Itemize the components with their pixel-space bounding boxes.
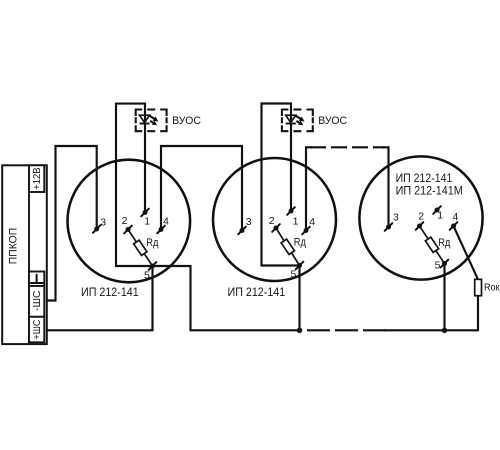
svg-text:1: 1 xyxy=(144,216,150,228)
wire detector 3 pin 2 to pin 5 through Rд R3 xyxy=(420,226,445,264)
detector circle D1 xyxy=(68,160,191,283)
terminal +ШС xyxy=(29,317,44,343)
detector 1 pin 4 xyxy=(157,226,165,234)
detector 3 pin 1 xyxy=(433,206,441,214)
resistor Rд R3 xyxy=(425,237,451,252)
svg-text:2: 2 xyxy=(418,210,424,222)
svg-text:3: 3 xyxy=(393,212,399,224)
ВУОС U1 LED diode xyxy=(140,115,150,123)
ВУОС U2 LED diode xyxy=(286,115,296,123)
wire detector 2 pin 5 to ВУОС U2 to pin 1 xyxy=(262,104,300,266)
svg-text:2: 2 xyxy=(122,215,128,227)
wire -ШС terminal to detector 1 pin 3 xyxy=(47,146,97,301)
detector 1 pin 2 xyxy=(124,226,132,234)
detector 2 pin 2 xyxy=(272,224,280,232)
svg-text:5: 5 xyxy=(291,269,297,281)
svg-text:+ШС: +ШС xyxy=(31,319,43,339)
resistor Rок R4 xyxy=(475,279,500,295)
detector 1 pin 1 xyxy=(141,209,149,217)
svg-text:2: 2 xyxy=(269,215,275,227)
ВУОС U2 emission arrows xyxy=(296,116,305,126)
svg-text:4: 4 xyxy=(163,216,169,228)
svg-text:Rд: Rд xyxy=(438,237,451,249)
detector 2 pin 3 xyxy=(238,227,246,235)
detector 2 pin 5 xyxy=(296,262,304,270)
svg-text:1: 1 xyxy=(437,210,443,222)
svg-text:5: 5 xyxy=(144,270,150,282)
wire detector 1 pin 5 right to bus toward detector 2 xyxy=(153,266,300,330)
detector circle D3 xyxy=(359,156,482,279)
svg-text:ВУОС: ВУОС xyxy=(318,115,347,127)
wire detector 2 pin 5 drop to bus junction xyxy=(298,266,300,331)
resistor Rд R2 xyxy=(281,237,306,255)
wire +ШС terminal bus to detector 1 pin 5 xyxy=(47,267,153,330)
detector 3 pin 5 xyxy=(441,260,449,268)
wire detector 2 pin 4 riser xyxy=(306,147,311,230)
wire detector 1 pin 5 to ВУОС U1 to pin 1 xyxy=(116,104,153,266)
svg-text:Rд: Rд xyxy=(294,237,307,249)
svg-text:+12В: +12В xyxy=(31,167,43,190)
detector 1 pin 5 xyxy=(149,262,157,270)
panel ППКОП box xyxy=(2,165,47,344)
detector 3 pin 2 xyxy=(416,222,424,230)
detector 2 pin 4 xyxy=(302,227,310,235)
resistor Rд R1 xyxy=(134,237,159,255)
wire detector 3 pin 4 diagonal to Rок xyxy=(454,226,479,280)
terminal -ШС xyxy=(29,286,44,317)
svg-text:3: 3 xyxy=(100,217,106,229)
svg-text:1: 1 xyxy=(293,216,299,228)
wire dashed bus segment detector 2 to detector 3 xyxy=(308,329,385,331)
junction dot detector 3 bus xyxy=(442,328,448,334)
svg-text:ИП 212-141: ИП 212-141 xyxy=(81,285,139,299)
wire detector 1 pin 4 to detector 2 pin 3 xyxy=(161,146,242,230)
svg-text:Rд: Rд xyxy=(146,237,159,249)
wire detector 3 pin 5 drop to bus junction xyxy=(443,264,445,331)
junction dot detector 2 bus xyxy=(297,328,303,334)
wire detector 3 pin 3 riser xyxy=(384,147,389,226)
wire dashed bridge detector 2 pin 4 to detector 3 pin 3 xyxy=(311,146,384,148)
detector 3 pin 3 xyxy=(385,223,393,231)
svg-text:ИП 212-141: ИП 212-141 xyxy=(228,285,286,299)
detector 3 label ИП 212-141 / ИП 212-141М xyxy=(396,171,463,198)
svg-text:ВУОС: ВУОС xyxy=(172,115,201,127)
terminal ⊥ common xyxy=(29,272,44,287)
detector 1 pin 3 xyxy=(93,225,101,233)
wire detector 1 pin 2 to pin 5 through Rд R1 xyxy=(128,230,153,267)
svg-text:Rок: Rок xyxy=(484,283,500,294)
detector 2 pin 1 xyxy=(287,207,295,215)
wire detector 2 pin 2 to pin 5 through Rд R2 xyxy=(276,228,300,266)
svg-text:4: 4 xyxy=(309,216,315,228)
detector 3 pin 4 xyxy=(450,222,458,230)
terminal +12В xyxy=(29,165,44,192)
detector circle D2 xyxy=(213,158,336,281)
ВУОС U2 dashed box xyxy=(282,110,313,132)
svg-text:ИП 212-141М: ИП 212-141М xyxy=(396,184,463,198)
detector 2 pin labels xyxy=(246,215,315,281)
svg-text:4: 4 xyxy=(453,211,459,223)
ВУОС U1 dashed box xyxy=(136,110,167,132)
svg-text:ППКОП: ППКОП xyxy=(8,228,20,265)
svg-text:5: 5 xyxy=(435,260,441,272)
svg-text:3: 3 xyxy=(246,216,252,228)
wire solid bus to detector 3 and Rок xyxy=(385,296,478,330)
ВУОС U1 emission arrows xyxy=(150,116,159,126)
svg-text:-ШС: -ШС xyxy=(31,290,43,311)
detector 3 pin labels xyxy=(393,210,459,272)
detector 1 pin labels xyxy=(100,215,169,282)
